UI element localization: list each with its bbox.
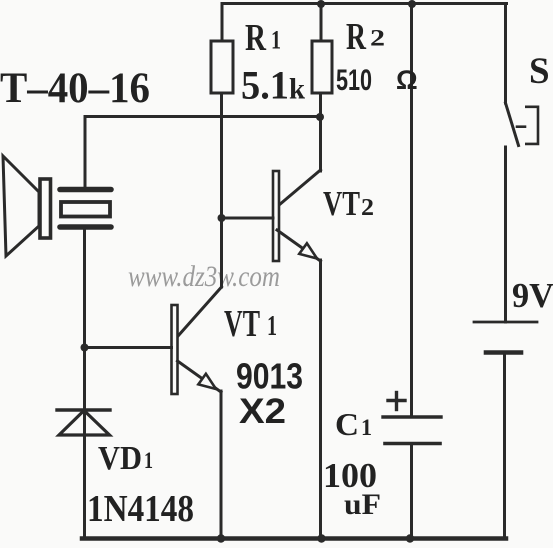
- svg-text:X2: X2: [239, 392, 286, 431]
- battery 9V: [474, 322, 537, 539]
- wire horizontal feed (speaker top to R2 bottom): [85, 115, 321, 118]
- node bottom rail C1: [406, 534, 414, 542]
- node R2 bottom / VT2 collector junction: [316, 113, 324, 121]
- svg-text:2: 2: [361, 195, 374, 221]
- node R2 top junction: [317, 0, 325, 8]
- svg-text:S: S: [529, 51, 550, 92]
- svg-text:VT: VT: [224, 303, 260, 345]
- svg-text:www.dz3w.com: www.dz3w.com: [128, 260, 280, 293]
- node VT1 base junction: [81, 344, 89, 352]
- svg-text:R: R: [245, 17, 266, 59]
- node C1 top junction: [408, 0, 416, 8]
- svg-text:VD: VD: [98, 440, 142, 477]
- svg-text:1: 1: [144, 448, 153, 473]
- svg-text:9013: 9013: [236, 356, 303, 397]
- svg-text:uF: uF: [344, 488, 381, 521]
- resistor R1: [211, 4, 233, 94]
- switch S: [506, 4, 539, 323]
- node bottom rail VT1 emitter: [217, 534, 225, 542]
- svg-text:510: 510: [336, 64, 372, 97]
- wire VT2 emitter down to bottom rail: [319, 260, 322, 539]
- svg-text:C: C: [335, 406, 359, 442]
- svg-text:1: 1: [361, 415, 372, 440]
- svg-text:VT: VT: [323, 184, 360, 223]
- wire R2 bottom lead / VT2 collector vertical: [319, 93, 322, 171]
- speaker / piezo sounder T-40-16: [3, 156, 111, 256]
- capacitor C1: [383, 4, 441, 539]
- node VT2 base junction: [218, 214, 226, 222]
- transistor VT1: [85, 287, 222, 394]
- resistor R2: [312, 4, 332, 94]
- wire speaker bottom lead down through VD1 to bottom rail: [83, 228, 86, 539]
- transistor VT2: [222, 170, 321, 261]
- svg-text:R: R: [346, 16, 366, 58]
- svg-text:1: 1: [267, 311, 277, 342]
- svg-text:9V: 9V: [512, 276, 553, 315]
- svg-text:1N4148: 1N4148: [87, 488, 194, 530]
- node bottom rail VT2 emitter: [317, 534, 325, 542]
- svg-text:1: 1: [271, 26, 281, 55]
- wire R1 bottom lead down to VT1 collector: [220, 93, 223, 287]
- wire speaker top lead: [84, 117, 87, 189]
- svg-text:T–40–16: T–40–16: [0, 65, 150, 112]
- wire top rail: [222, 2, 507, 5]
- wire bottom rail: [82, 536, 506, 541]
- wire VT1 emitter down to bottom rail: [220, 391, 223, 539]
- svg-text:Ω: Ω: [396, 65, 418, 95]
- svg-text:2: 2: [370, 26, 385, 51]
- diode VD1: [57, 410, 110, 437]
